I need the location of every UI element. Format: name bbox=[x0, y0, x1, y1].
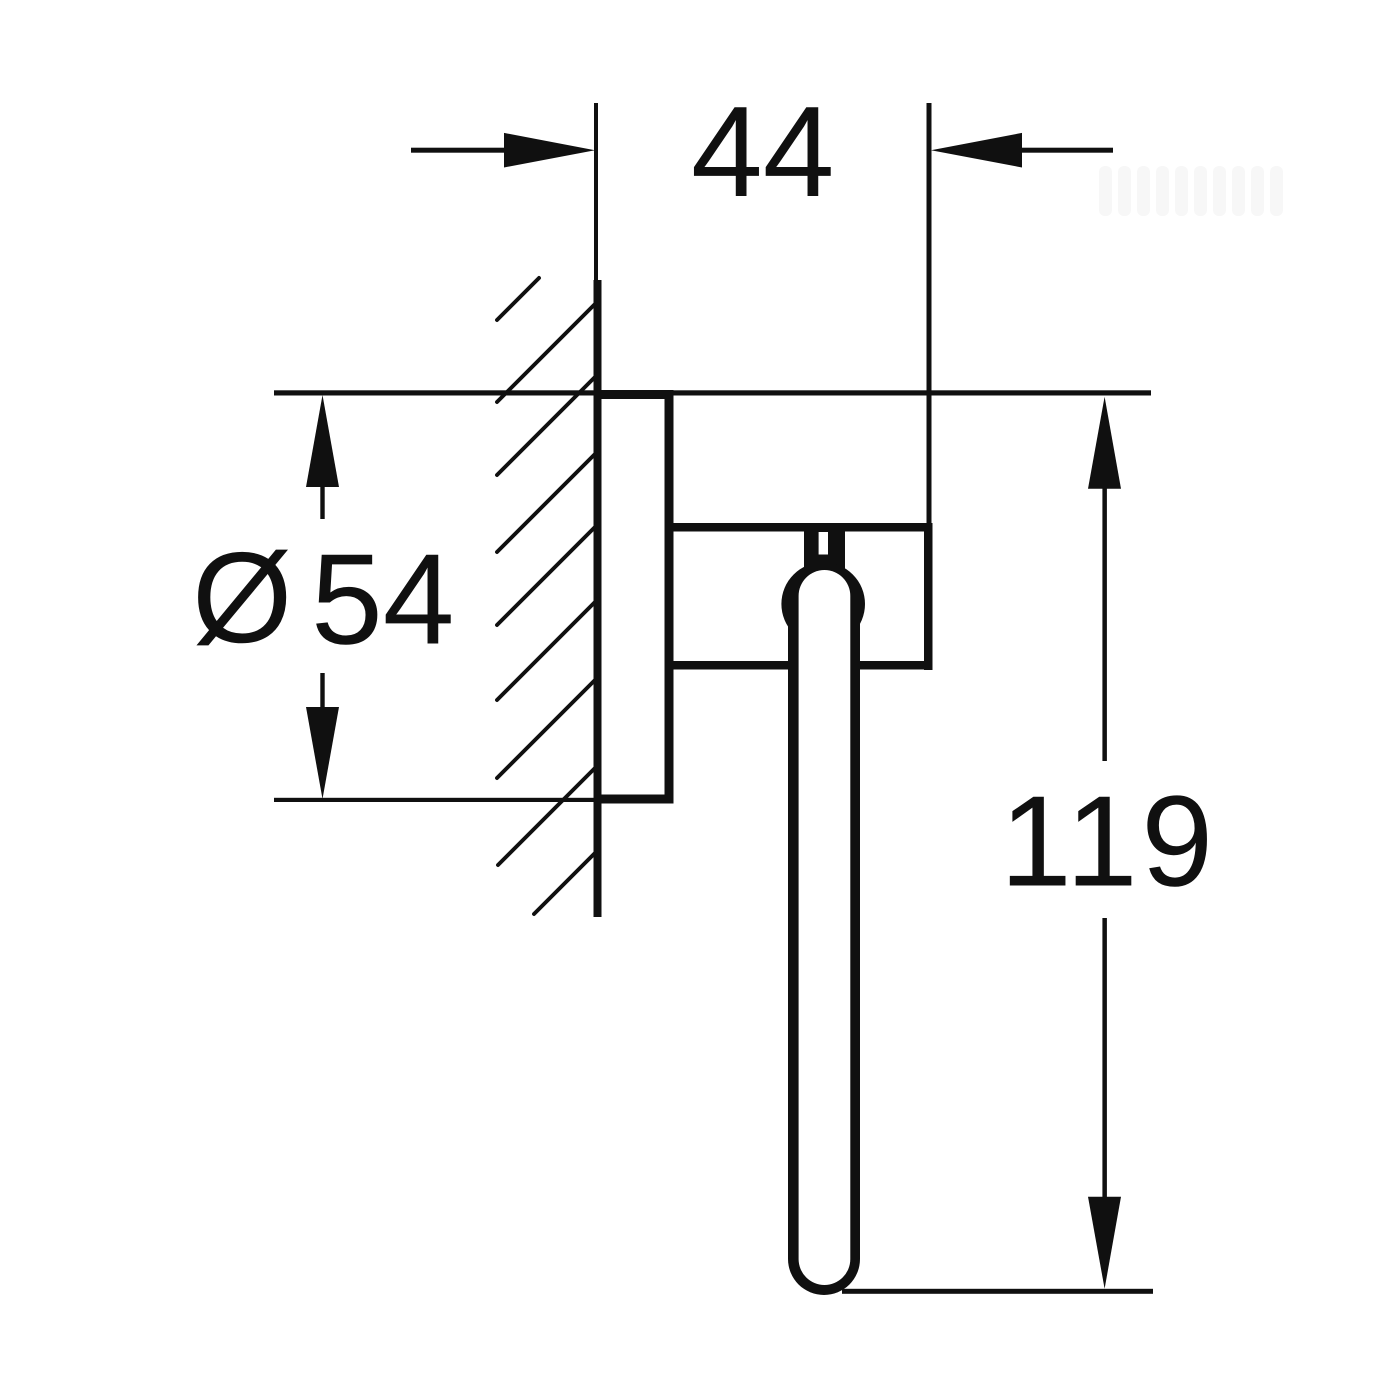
top horizontal line (plate top / dimension reference) bbox=[274, 390, 1151, 395]
hatch line 2 bbox=[497, 301, 598, 402]
hatch line 3 bbox=[497, 374, 598, 475]
dim 119 up arrowhead bbox=[1088, 397, 1121, 489]
right extension line for dim 44 / 119 bbox=[927, 103, 932, 523]
arm pivot stem slit (white) bbox=[819, 532, 828, 555]
dim Ø54 lower shaft bbox=[320, 673, 324, 725]
arm tube body bbox=[788, 604, 860, 1259]
svg-text:54: 54 bbox=[311, 528, 455, 672]
dim Ø54 upper shaft bbox=[320, 470, 324, 519]
dim 44 line left segment bbox=[411, 148, 508, 153]
bottom right reference line (arm bottom) bbox=[842, 1289, 1153, 1294]
wall line (thick) bbox=[594, 280, 602, 917]
hatch line 6 bbox=[497, 599, 598, 700]
dim Ø54 bottom reference line bbox=[274, 798, 601, 802]
dim 119 down arrowhead bbox=[1088, 1197, 1121, 1289]
hatch line 8 bbox=[498, 765, 598, 865]
svg-text:44: 44 bbox=[691, 80, 835, 224]
arm tube bottom cap bbox=[788, 1223, 860, 1295]
faint watermark bars top right bbox=[1099, 166, 1283, 216]
hatch line 9 bbox=[534, 850, 598, 914]
dim Ø54 down arrowhead bbox=[306, 707, 339, 799]
mounting plate bottom edge bbox=[594, 795, 674, 804]
hatch line 5 bbox=[497, 524, 598, 625]
hatch line 1 bbox=[497, 278, 539, 320]
arm pivot stem bbox=[804, 526, 845, 580]
mounting plate right edge bbox=[665, 390, 674, 804]
mounting plate top edge bbox=[594, 390, 674, 399]
wall extension line (thin, above wall) bbox=[594, 103, 598, 280]
bracket right edge bbox=[924, 523, 933, 670]
bracket top edge bbox=[674, 523, 933, 532]
dim 44 line right segment bbox=[1021, 148, 1113, 153]
dim 44 right arrowhead bbox=[931, 133, 1022, 168]
hatch line 7 bbox=[497, 677, 598, 778]
hatch lines of wall bbox=[497, 278, 598, 914]
hatch line 4 bbox=[497, 451, 598, 552]
svg-text:119: 119 bbox=[1000, 770, 1217, 914]
dim Ø54 up arrowhead bbox=[306, 395, 339, 487]
dim 119 lower shaft bbox=[1102, 918, 1107, 1210]
bracket bottom edge bbox=[674, 661, 933, 670]
arm pivot knuckle bbox=[781, 562, 865, 646]
arm tube interior (white) bbox=[799, 570, 851, 1285]
dim 119 upper shaft bbox=[1102, 478, 1107, 761]
dim 44 left arrowhead bbox=[504, 133, 595, 168]
svg-text:Ø: Ø bbox=[192, 526, 292, 670]
